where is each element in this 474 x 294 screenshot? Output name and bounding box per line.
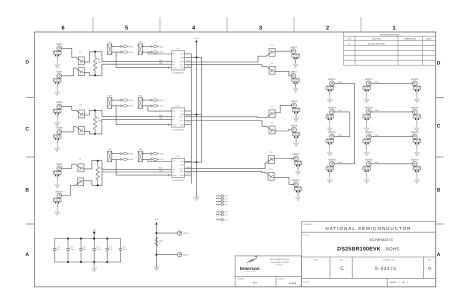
resistor R3a pullup [120,152,134,155]
wire U1 gnd stub 2 [185,67,192,69]
junction ch3 term top [97,160,99,162]
svg-text:C8: C8 [270,122,272,125]
svg-text:SMA18: SMA18 [365,107,373,110]
svg-text:VDD: VDD [129,51,134,54]
capacitor C16 .01uF [93,239,102,263]
svg-text:ECO NO.: ECO NO. [372,37,381,40]
wire wire to C3 [185,56,267,62]
wire wire to C9 [64,164,76,168]
capacitor C15 1uF [80,239,88,263]
resistor R2c pullup [150,99,164,102]
wire wire to C5 [64,106,76,110]
wire TP2 stubs2 [142,51,150,53]
ground SMA11 gnd [296,167,301,175]
connector SMA13 [326,78,336,95]
top zone ticks [92,18,94,33]
resistor R1d pullup [150,51,164,54]
wire wire from C1 [85,52,90,62]
svg-text:REVISION RECORD: REVISION RECORD [380,33,400,36]
svg-text:DATED: DATED [278,278,285,281]
connector SMA5 [53,101,63,118]
connector SMA3 [289,46,299,63]
svg-text:6: 6 [61,25,64,31]
ground SMA1 gnd [55,60,60,68]
svg-text:DS25BR100: DS25BR100 [173,129,185,132]
junction ch2 term bottom [94,133,96,135]
wire termination rail top ch1 [90,51,102,53]
resistor R2 100 [93,110,102,133]
svg-text:VDD: VDD [159,105,164,108]
junction U3 vcc [196,161,198,163]
svg-text:6/16/08: 6/16/08 [289,282,297,285]
svg-text:SMA1: SMA1 [56,43,63,46]
svg-text:C: C [340,266,344,272]
capacitor C10 [75,178,84,186]
wire wire to C10 [64,186,76,196]
stub EN2 [216,214,227,217]
wire wire from C6 [84,131,89,134]
svg-text:COMPANY:: COMPANY: [303,223,313,226]
ground cap bank [92,264,97,272]
junction ch1 term bottom [94,74,96,76]
cap bank vdd stem [93,234,95,239]
svg-text:SMA11: SMA11 [292,153,300,156]
svg-text:A: A [437,252,441,258]
svg-text:5: 5 [125,25,128,31]
svg-text:C13: C13 [57,246,60,249]
wire wire from C2 [84,73,89,76]
svg-text:C12: C12 [269,168,272,171]
cap bank top rail [55,238,121,240]
junction C15 bot [80,261,82,263]
ground GND rail [194,193,199,201]
capacitor C2 [76,68,85,76]
svg-text:SMA10: SMA10 [56,190,64,193]
svg-text:DS25BR100: DS25BR100 [173,72,185,75]
svg-text:SMA2: SMA2 [56,71,63,74]
wire U2 gnd stub [185,110,192,112]
svg-text:B: B [25,187,29,193]
svg-text:1: 1 [392,25,395,31]
connector SMA22 [411,107,421,124]
svg-text:25 NorthBrook Drive: 25 NorthBrook Drive [270,258,291,261]
wire SMA row link y111.9 [373,111,411,113]
svg-text:VDD: VDD [154,218,159,221]
svg-text:SMA19: SMA19 [365,131,373,134]
svg-text:VDD1: VDD1 [183,232,189,235]
svg-text:D: D [437,60,441,66]
junction C16 bot [93,261,95,263]
capacitor C6 [76,126,85,134]
wire wire from C7 [275,105,291,113]
header TP1 [108,41,114,55]
svg-text:VDD: VDD [159,45,164,48]
wire termination rail top ch3 [92,160,102,162]
svg-text:EN3: EN3 [224,219,227,222]
wire ch2 pair- to IC [102,119,172,134]
VDD power symbol [195,37,200,42]
svg-text:SMA4: SMA4 [290,71,297,74]
wire ch1 pair- to IC [102,64,172,75]
resistor R3b pullup [120,158,134,161]
wire ch3 pair- to IC [102,172,172,185]
VDD symbol test points [154,218,159,225]
svg-text:IN2+: IN2+ [159,114,163,117]
wire U3 gnd stub [185,160,192,162]
svg-text:OUT+: OUT+ [179,167,184,170]
wire wire from C9 [84,161,92,169]
svg-text:SHEET 1 OF 1: SHEET 1 OF 1 [390,281,409,284]
ground SMA2 gnd [55,88,60,96]
IC U2 DS25BR100 [172,105,185,132]
wire TP1 stubs [112,45,120,47]
svg-text:D: D [25,59,29,65]
VDD rail lower segment [196,162,198,197]
resistor R1b pullup [120,51,134,54]
svg-text:SCHEMATIC: SCHEMATIC [369,238,394,242]
connector SMA19 [363,131,373,148]
wire termination rail bottom ch2 [90,133,102,135]
svg-text:C15: C15 [83,246,86,249]
wire ch1 pair+ to IC [102,52,172,62]
connector SMA20 [363,159,373,176]
wire wire to C6 [64,127,76,132]
side zone ticks [27,97,35,99]
wire U3 gnd stub 2 [185,174,192,176]
wire ch2 enable wire [148,106,172,111]
wire SMA row link y83.3 [373,82,411,84]
svg-text:SD4: SD4 [224,203,227,206]
capacitor C18 .01uF [119,239,128,263]
svg-text:SCALE: SCALE [303,281,310,284]
wire U1 gnd stub [185,53,192,55]
svg-text:3: 3 [259,25,262,31]
svg-text:IN1-: IN1- [159,62,163,65]
svg-text:OUT+: OUT+ [179,61,184,64]
svg-text:OUT-: OUT- [180,170,184,173]
svg-text:VDD: VDD [159,51,164,54]
wire wire to C8 [185,121,267,127]
wire TP5 stubs [112,153,120,155]
wire TP26 stub [156,254,177,256]
IC U3 DS25BR100 [172,155,185,182]
svg-text:APPROVED: APPROVED [405,37,417,40]
svg-text:SMA8: SMA8 [291,125,298,128]
svg-text:VDD: VDD [159,99,164,102]
header TP3 [108,95,114,109]
svg-text:GND1: GND1 [183,254,189,257]
connector SMA1 [53,43,63,60]
svg-text:SMA24: SMA24 [411,159,419,162]
ground SMA19 gnd [364,148,369,156]
svg-text:SMA17: SMA17 [365,78,373,81]
wire wire to C2 [64,68,76,76]
svg-text:C11: C11 [269,151,272,154]
svg-text:C: C [437,124,441,130]
header TP4 [138,95,144,109]
svg-text:VDD: VDD [129,153,134,156]
wire termination rail bottom ch3 [92,184,102,186]
junction C16 top [93,238,95,240]
svg-text:C17: C17 [109,246,112,249]
stub SD3 [216,200,227,203]
svg-text:IN+: IN+ [173,60,176,63]
svg-text:NETWORK POWER: NETWORK POWER [244,271,256,273]
capacitor C1 [76,50,85,65]
title block [302,222,436,287]
svg-text:OUT-: OUT- [180,119,184,122]
svg-text:SMA20: SMA20 [365,159,373,162]
capacitor C12 [265,168,274,180]
resistor R3 100 [96,161,105,185]
wire wire to C11 [185,163,266,168]
header TP5 [108,148,114,162]
connector SMA21 [411,78,421,95]
svg-text:C5: C5 [79,103,81,106]
wire wire to C12 [185,171,266,172]
junction C14 bot [67,261,69,263]
svg-text:SMA15: SMA15 [328,131,336,134]
connector SMA4 [289,71,299,88]
svg-text:C14: C14 [70,246,73,249]
junction C14 top [67,238,69,240]
wire termination rail bottom ch1 [90,74,102,76]
wire TP3 stubs [112,99,120,101]
wire TP5 stubs2 [112,158,120,160]
stub SD1 [216,195,227,198]
svg-text:VDD: VDD [129,45,134,48]
connector SMA11 [292,153,302,170]
ground test point circuit [154,263,159,271]
connector SMA7 [290,100,300,117]
wire TP3 stubs2 [112,105,120,107]
svg-text:SD3: SD3 [224,200,227,203]
svg-text:VDD: VDD [92,229,97,232]
wire wire from C4 [275,71,291,76]
resistor R1c pullup [150,45,164,48]
resistor R1a pullup [120,45,134,48]
test point TP26 [177,253,189,257]
wire wire from C5 [85,110,90,115]
svg-text:C3: C3 [270,44,272,47]
svg-text:Gray, Maine 04039: Gray, Maine 04039 [270,261,289,264]
wire U3 vcc stub [185,161,202,163]
svg-text:IN+: IN+ [173,115,176,118]
svg-text:C4: C4 [270,62,272,65]
net tie mark U3 [168,174,170,176]
resistor R3d pullup [150,158,164,161]
svg-text:SMA21: SMA21 [411,78,419,81]
IC U1 DS25BR100 [172,48,185,75]
wire TP4 stubs2 [142,105,150,107]
VDD rail wire [196,42,198,162]
junction vdd join [93,238,95,240]
svg-text:C7: C7 [270,105,272,108]
connector SMA18 [363,107,373,124]
connector SMA23 [411,131,421,148]
wire U2 gnd stub 2 [185,124,192,126]
ground SMA10 gnd [55,207,60,215]
ground SMA24 gnd [414,175,419,183]
net tie mark U2 [168,124,170,126]
wire wire from C3 [275,50,291,52]
wire TP25 stub [156,232,177,234]
svg-text:SMA3: SMA3 [290,46,297,49]
junction ch1 term top [94,51,96,53]
stub SD4 [216,203,227,206]
Emerson logo block [235,256,301,287]
svg-text:SMA6: SMA6 [56,127,63,130]
junction C17 top [106,238,108,240]
svg-text:Emerson: Emerson [240,266,260,271]
wire SMA row link y163.8 [373,163,411,165]
stub EN3 [216,219,227,222]
junction U1 vcc [196,56,198,58]
ground SMA21 gnd [414,95,419,103]
svg-text:SMA12: SMA12 [292,179,300,182]
header TP2 [138,41,144,55]
svg-text:IN1+: IN1+ [159,59,163,62]
stub EN1 [216,211,227,214]
revision record table [344,32,436,65]
capacitor C3 [266,44,275,56]
junction C17 bot [106,261,108,263]
capacitor C4 [266,62,275,74]
VBB rail wire [201,57,203,162]
junction tp vdd [155,232,157,234]
connector SMA10 [53,190,63,207]
svg-text:SMA13: SMA13 [328,78,336,81]
svg-text:LTR: LTR [347,37,351,40]
svg-text:NATIONAL SEMICONDUCTOR: NATIONAL SEMICONDUCTOR [325,226,411,231]
VDD symbol cap bank [92,229,97,234]
svg-text:EN2: EN2 [224,214,227,217]
ground SMA15 gnd [327,148,332,156]
svg-text:VDD: VDD [129,158,134,161]
svg-text:C9: C9 [78,157,80,160]
GND rail wire [190,54,192,184]
svg-text:U.S.A: U.S.A [277,264,283,267]
wire ch3 enable wire [148,159,172,161]
svg-text:VDD: VDD [195,37,200,40]
resistor R2a pullup [120,99,134,102]
svg-text:S-03475: S-03475 [375,266,397,271]
svg-text:SMA23: SMA23 [411,131,419,134]
wire termination rail top ch2 [90,109,102,111]
junction ch2 term top [94,109,96,111]
wire TP1 stubs2 [112,51,120,53]
resistor R16 0 ohm [155,238,163,247]
svg-text:SMA16: SMA16 [328,159,336,162]
svg-text:SMA14: SMA14 [328,107,336,110]
svg-text:VDD: VDD [159,153,164,156]
ground SMA20 gnd [364,175,369,183]
test point TP25 [177,231,189,235]
svg-text:C18: C18 [123,246,126,249]
connector SMA15 [326,131,336,148]
svg-text:VDD: VDD [129,105,134,108]
wire TP6 stubs [142,153,150,155]
capacitor C8 [266,122,275,134]
resistor R2b pullup [120,105,134,108]
svg-text:OUT+: OUT+ [179,116,184,119]
svg-text:SD1: SD1 [224,195,227,198]
svg-text:B: B [437,188,441,194]
wire wire from C12 [274,177,293,184]
svg-text:ACF: ACF [253,282,258,285]
connector SMA6 [53,127,63,144]
svg-text:A: A [25,252,29,258]
svg-text:TITLE:: TITLE: [303,234,309,237]
svg-text:OUT-: OUT- [180,63,184,66]
svg-text:SMA5: SMA5 [56,101,63,104]
stub SD2 [216,197,227,200]
capacitor C9 [75,157,84,171]
svg-text:C16: C16 [96,246,99,249]
junction C15 top [80,238,82,240]
capacitor C17 1uF [106,239,114,263]
wire SMA13 to SMA16 loop [336,83,354,164]
wire wire to C4 [185,65,267,67]
svg-text:IN3+: IN3+ [159,167,163,170]
connector SMA12 [292,179,302,196]
connector SMA17 [363,78,373,95]
svg-text:C1: C1 [79,50,81,53]
connector SMA14 [326,107,336,124]
svg-text:C: C [25,127,29,133]
svg-text:VDD: VDD [159,158,164,161]
svg-text:DATE: DATE [426,37,432,40]
svg-text:SMA22: SMA22 [411,107,419,110]
ground SMA14 gnd [327,123,332,131]
wire SMA14 to SMA15 loop [336,112,350,136]
svg-text:DRAWN: DRAWN [237,278,244,281]
svg-text:SMA7: SMA7 [291,100,298,103]
wire TP6 stubs2 [142,158,150,160]
capacitor C11 [266,151,275,163]
svg-text:SMA9: SMA9 [56,163,63,166]
ground SMA18 gnd [364,123,369,131]
ground SMA6 gnd [55,144,60,152]
capacitor C13 1uF [53,239,61,263]
svg-text:DRAWING NO: DRAWING NO [383,258,395,261]
connector SMA2 [53,71,63,88]
resistor R2d pullup [150,105,164,108]
svg-text:SD2: SD2 [224,197,227,200]
ground SMA5 gnd [55,118,60,126]
resistor R1 100 [93,52,102,76]
svg-text:DS25BR100: DS25BR100 [173,179,185,182]
wire U1 vcc stub [185,56,202,58]
junction tp gnd [155,254,157,256]
svg-text:0: 0 [159,242,160,245]
wire U2 vcc stub [185,114,202,116]
svg-text:IN2-: IN2- [159,117,163,120]
Emerson logo [247,256,257,263]
ground SMA4 gnd [293,84,298,92]
wire ch2 pair+ to IC [102,110,172,116]
capacitor C14 .01uF [67,239,76,263]
wire wire from C11 [275,158,294,160]
ground SMA12 gnd [296,193,301,201]
ground SMA23 gnd [414,148,419,156]
ground SMA8 gnd [294,138,299,146]
ground SMA16 gnd [327,175,332,183]
cap bank bottom rail [55,261,121,263]
wire wire to C1 [64,48,76,57]
wire ch3 pair+ to IC [102,161,172,170]
header TP6 [138,148,144,162]
